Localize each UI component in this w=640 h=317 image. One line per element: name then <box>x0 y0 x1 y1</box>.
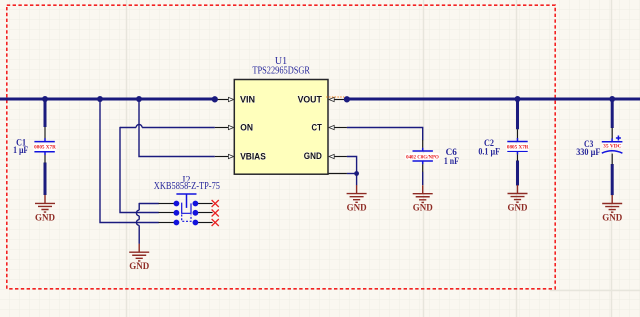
svg-text:0402 C0G/NPO: 0402 C0G/NPO <box>406 155 439 160</box>
svg-text:VOUT: VOUT <box>298 95 322 106</box>
svg-text:VBIAS: VBIAS <box>240 151 266 162</box>
svg-text:GND: GND <box>508 203 529 213</box>
svg-text:0805 X7R: 0805 X7R <box>507 146 529 151</box>
svg-text:GND: GND <box>413 203 434 213</box>
svg-text:35 VDC: 35 VDC <box>603 144 622 149</box>
svg-text:0.1 µF: 0.1 µF <box>478 147 500 158</box>
svg-text:GND: GND <box>35 212 56 222</box>
svg-text:XKB5858-Z-TP-75: XKB5858-Z-TP-75 <box>154 181 220 192</box>
svg-text:GND: GND <box>304 151 322 162</box>
svg-text:0805 X7R: 0805 X7R <box>34 146 56 151</box>
svg-text:GND: GND <box>347 203 368 213</box>
svg-text:1 nF: 1 nF <box>444 156 459 167</box>
svg-text:GND: GND <box>602 213 623 223</box>
svg-text:GND: GND <box>129 261 150 271</box>
svg-text:ON: ON <box>240 123 253 134</box>
svg-text:1 µF: 1 µF <box>13 145 28 156</box>
svg-text:330 µF: 330 µF <box>576 147 600 158</box>
svg-text:CT: CT <box>312 123 322 134</box>
svg-text:TPS22965DSGR: TPS22965DSGR <box>252 65 310 76</box>
svg-text:VIN: VIN <box>240 95 255 106</box>
